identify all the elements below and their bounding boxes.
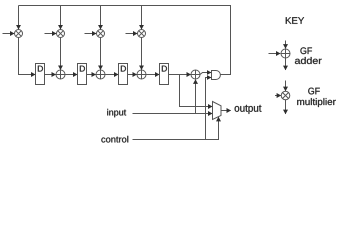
label: output	[235, 105, 262, 114]
wire: tap from D4 output down to mux upper input	[180, 75, 213, 107]
multiplier g3	[138, 30, 146, 38]
adder A3	[137, 70, 146, 79]
wire: adder A3 output into register D4	[146, 74, 159, 76]
label: key GF adder 'GF'	[300, 47, 312, 54]
wire: bus drop into multiplier g1	[60, 6, 62, 30]
register D3	[119, 64, 128, 85]
label: D2 letter	[80, 66, 85, 72]
wire: multiplier g2 output into adder A2	[100, 38, 102, 70]
wire: input line into mux lower input	[133, 113, 213, 115]
node: g2 coefficient input arrow	[85, 33, 97, 35]
wire: input branch up into adder A4 bottom	[195, 80, 197, 114]
wire: control branch up into gate lower input	[206, 78, 212, 140]
wire: adder A2 output into register D3	[105, 74, 118, 76]
node: g3 coefficient input arrow	[126, 33, 138, 35]
wire: bus drop into multiplier g3	[141, 6, 143, 30]
wire: bus drop into multiplier g2	[100, 6, 102, 30]
wire: D2 output to adder A2	[87, 74, 96, 76]
wire: multiplier g1 output into adder A1	[60, 38, 62, 70]
register D4	[160, 64, 169, 85]
label: D4 letter	[162, 66, 167, 72]
wire: D3 output to adder A3	[128, 74, 137, 76]
wire: adder A4 output to gate upper input	[200, 73, 211, 75]
adder A2	[96, 70, 105, 79]
wire: bus drop into multiplier g0	[18, 6, 20, 30]
multiplier g2	[97, 30, 105, 38]
label: key GF multiplier 'GF'	[308, 88, 320, 95]
label: key GF multiplier 'multiplier'	[297, 98, 335, 107]
gate U1 (feedback AND gate)	[212, 71, 221, 80]
wire: adder A1 output into register D2	[65, 74, 77, 76]
register D2	[78, 64, 87, 85]
wire: D1 output to adder A1	[45, 74, 56, 76]
node: g0 coefficient input arrow	[3, 33, 15, 35]
wire: multiplier g0 output down and into register D1	[19, 38, 36, 75]
key: GF multiplier symbol	[275, 81, 290, 114]
label: KEY	[286, 17, 304, 24]
node: g1 coefficient input arrow	[45, 33, 57, 35]
mux U2 (output multiplexer)	[213, 102, 222, 120]
label: key GF adder 'adder'	[295, 57, 322, 64]
adder A1	[56, 70, 65, 79]
register D1	[36, 64, 45, 85]
wire: D4 output to final adder A4	[169, 74, 191, 76]
multiplier g0	[15, 30, 23, 38]
wire: multiplier g3 output into adder A3	[141, 38, 143, 70]
adder A4 (final)	[191, 70, 200, 79]
wire: feedback bus from gate output up and across top rail	[19, 6, 231, 75]
label: control	[101, 136, 128, 143]
multiplier g1	[57, 30, 65, 38]
wire: control line across and up to mux select	[133, 117, 219, 139]
key: GF adder symbol	[269, 41, 291, 70]
wire: mux output arrow	[221, 110, 231, 112]
label: input	[107, 109, 126, 117]
label: D1 letter	[38, 66, 43, 72]
label: D3 letter	[121, 66, 126, 72]
